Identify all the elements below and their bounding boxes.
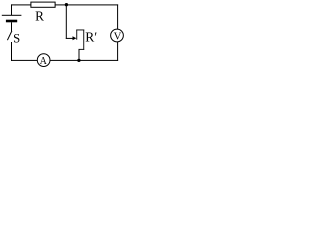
svg-text:R: R	[35, 9, 44, 24]
svg-text:R′: R′	[85, 29, 97, 44]
svg-text:S: S	[13, 31, 20, 45]
svg-text:V: V	[114, 31, 122, 43]
svg-text:A: A	[40, 56, 48, 67]
